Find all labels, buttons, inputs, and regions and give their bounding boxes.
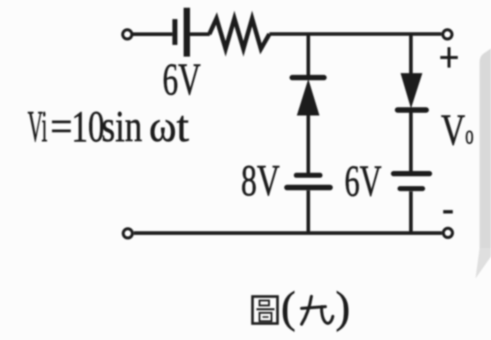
svg-text:V: V	[441, 105, 465, 155]
battery B1 6V short plate	[172, 19, 177, 45]
terminal top-right	[443, 30, 452, 39]
caption 圖(九)	[253, 283, 351, 332]
svg-text:6V: 6V	[163, 54, 201, 105]
wire branch1 lower	[306, 190, 310, 233]
glyph 圖	[253, 297, 278, 324]
wire branch2 upper	[409, 34, 413, 74]
wire input to battery	[133, 32, 173, 36]
terminal top-left	[123, 30, 132, 39]
terminal bottom-right	[443, 228, 452, 237]
label - (output polarity)	[443, 210, 453, 213]
svg-text:sin: sin	[102, 101, 143, 151]
svg-text:o: o	[465, 119, 473, 149]
battery B3 6V short plate	[400, 186, 423, 191]
svg-text:t: t	[177, 101, 190, 151]
diode D1 cathode bar	[292, 75, 324, 80]
wire branch2 middle	[409, 112, 413, 171]
wire branch1 middle	[306, 115, 310, 173]
battery B2 8V short plate	[296, 173, 320, 178]
svg-text:(: (	[281, 283, 296, 332]
wire branch1 upper	[306, 34, 310, 75]
label + (output polarity)	[440, 47, 458, 67]
terminal bottom-left	[123, 229, 132, 238]
resistor R zigzag	[209, 19, 269, 49]
svg-text:): )	[336, 283, 351, 332]
battery B3 6V long plate	[394, 171, 430, 176]
diode D2 cathode bar	[398, 107, 427, 112]
svg-text:6V: 6V	[345, 157, 382, 206]
svg-text:8V: 8V	[241, 157, 280, 205]
wire branch2 lower	[409, 191, 413, 233]
svg-text:10: 10	[72, 101, 105, 151]
label Vi=10sin wt	[28, 101, 190, 152]
glyph 九	[302, 296, 333, 324]
battery B1 6V long plate	[184, 8, 190, 57]
svg-text:=: =	[50, 102, 72, 152]
svg-text:ω: ω	[149, 102, 176, 152]
diode D2 triangle (pointing down)	[401, 74, 422, 107]
wire bottom rail	[134, 231, 442, 235]
wire battery to resistor	[190, 32, 210, 36]
diode D1 triangle (pointing up)	[298, 81, 319, 115]
svg-text:Vi: Vi	[28, 101, 48, 151]
battery B2 8V long plate	[287, 185, 330, 191]
wire resistor to output terminal	[269, 32, 441, 36]
